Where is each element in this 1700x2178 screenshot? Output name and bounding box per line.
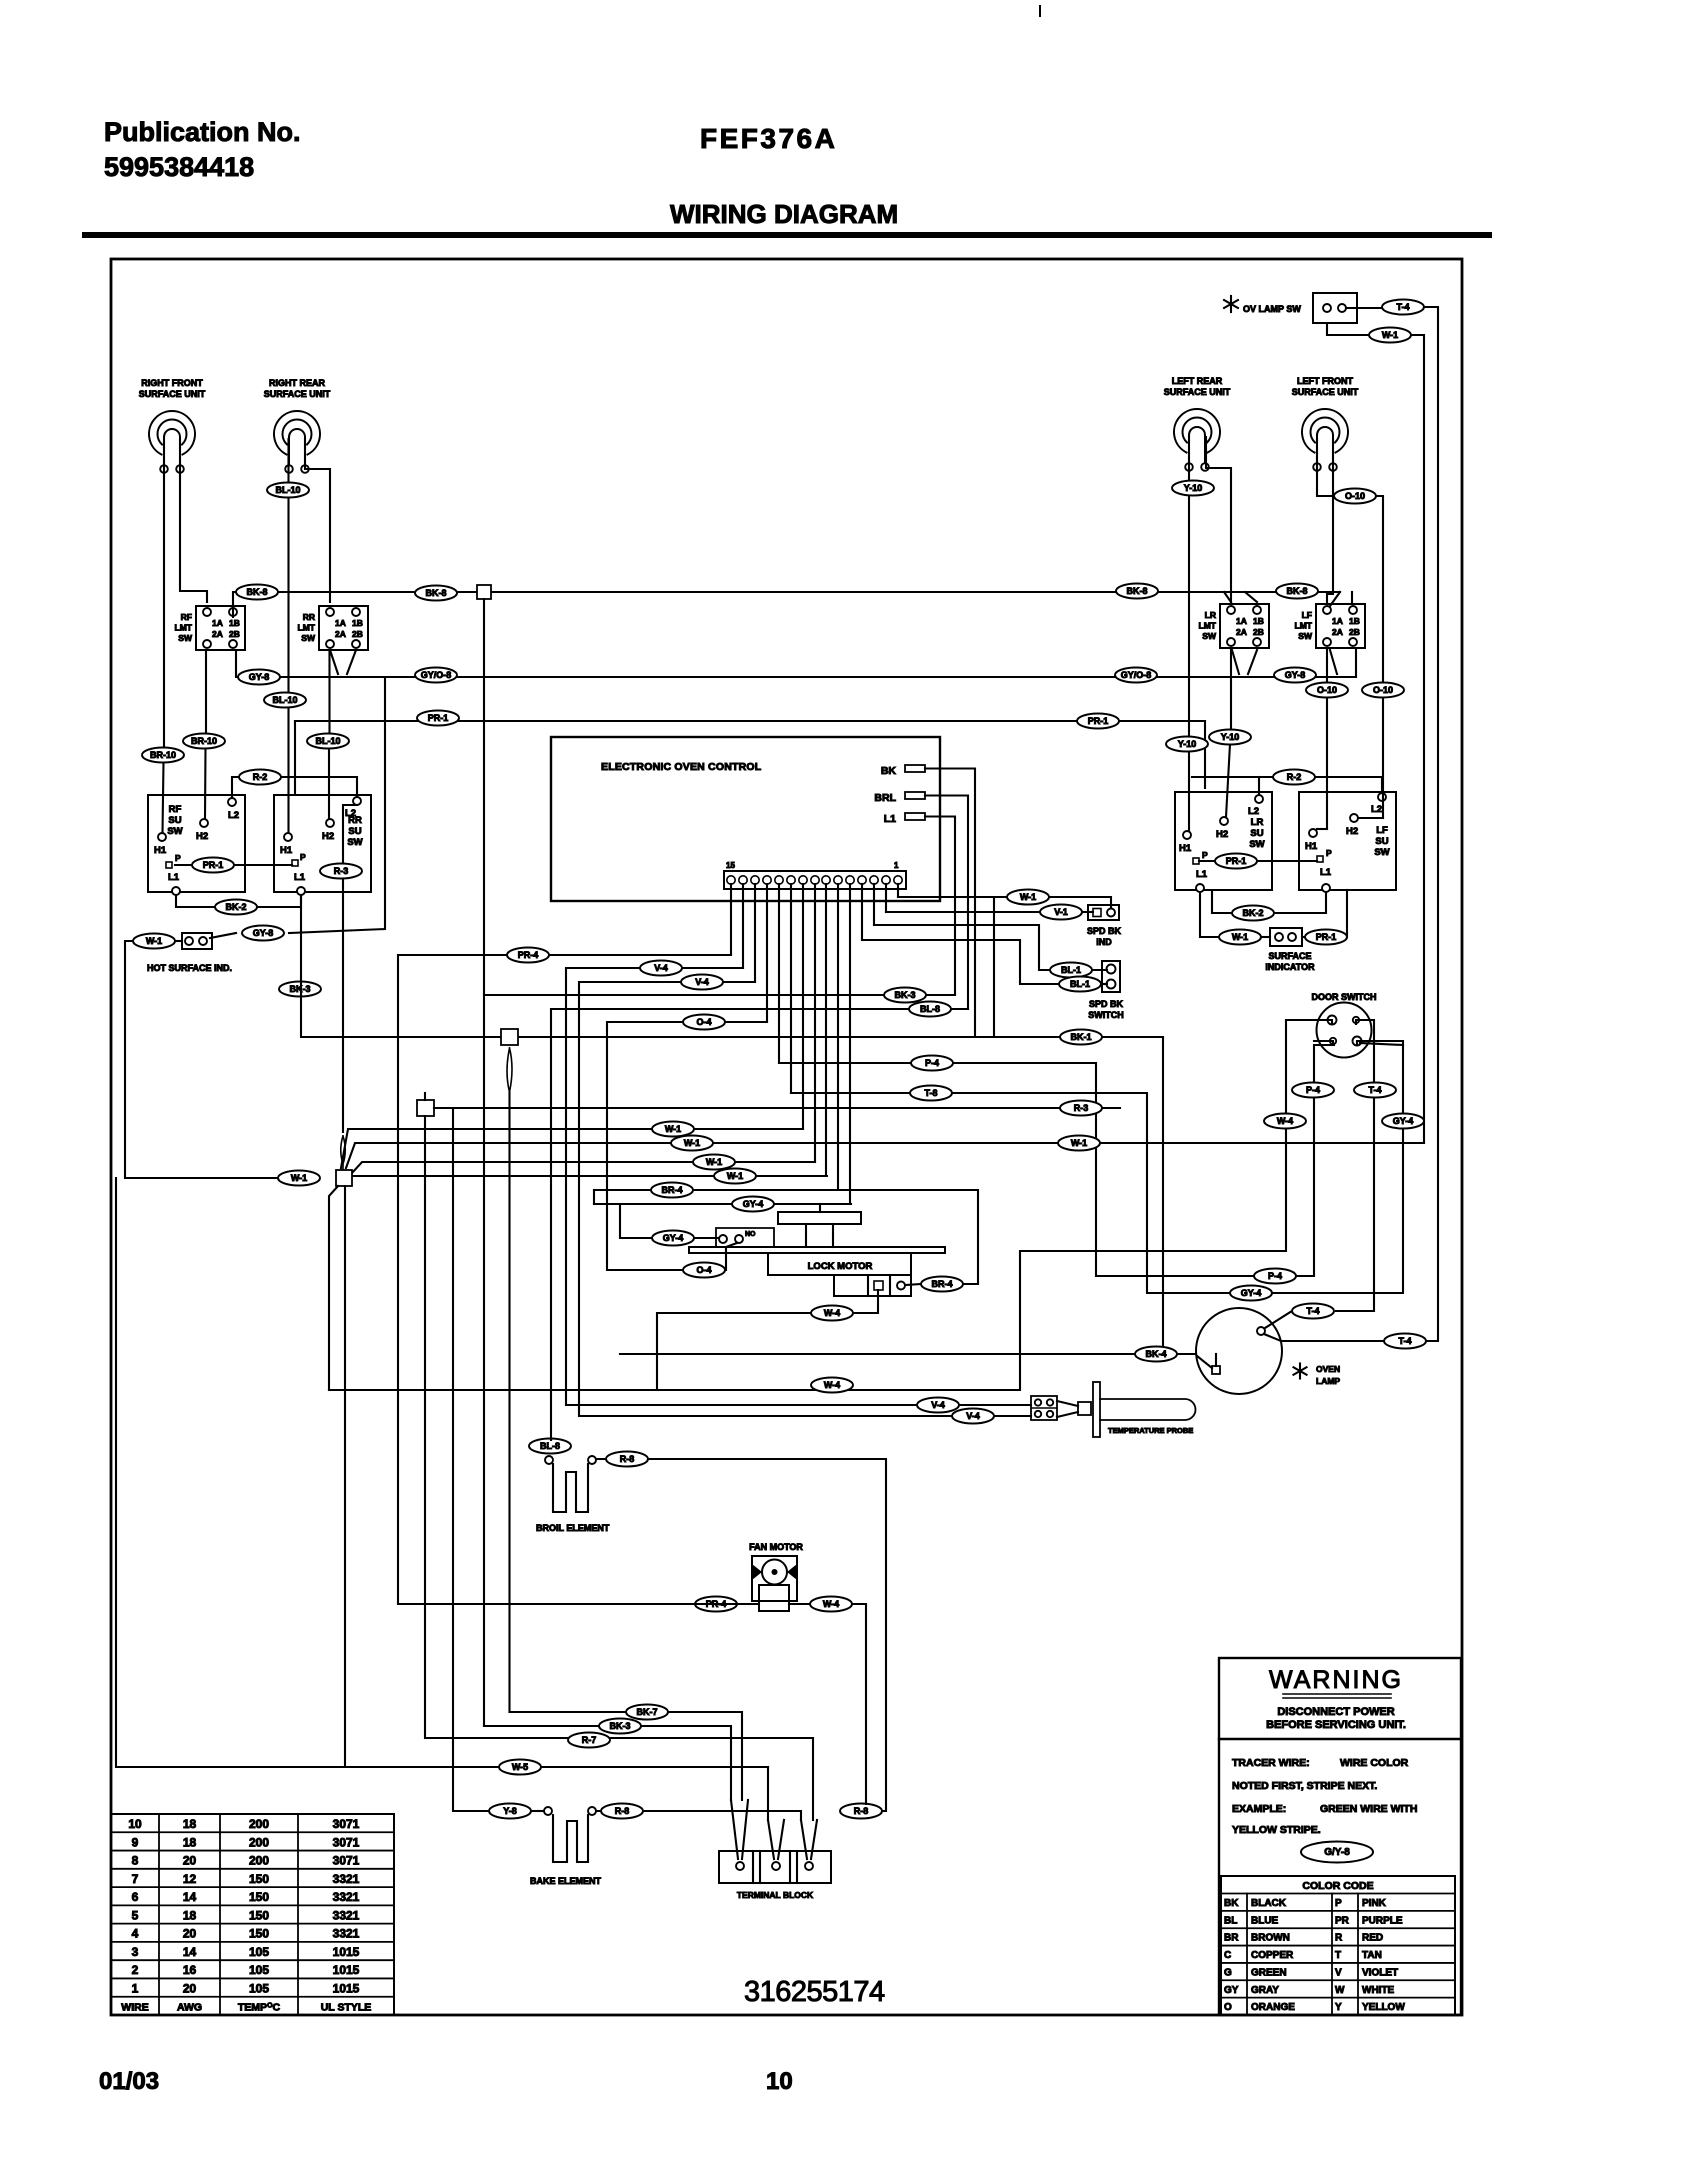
svg-text:YELLOW: YELLOW	[1362, 2002, 1405, 2013]
svg-text:SURFACE: SURFACE	[1268, 951, 1311, 961]
svg-text:1A: 1A	[335, 618, 346, 628]
wire label Y-8	[489, 1804, 531, 1819]
W-1 row 3	[352, 1162, 815, 1173]
svg-text:18: 18	[183, 1835, 197, 1849]
PR-4 row	[398, 955, 731, 1604]
svg-text:P: P	[1335, 1898, 1342, 1909]
W-1 row 1	[341, 1129, 803, 1168]
outer border	[111, 259, 1462, 2015]
SPD BK IND	[1088, 905, 1119, 920]
svg-text:SURFACE UNIT: SURFACE UNIT	[264, 389, 331, 399]
wire label BR-4	[921, 1277, 963, 1292]
svg-text:1B: 1B	[1253, 616, 1264, 626]
svg-text:Publication No.: Publication No.	[104, 117, 301, 147]
auxiliary vertical near EOC right	[993, 897, 995, 1037]
warning box	[1219, 1658, 1461, 2015]
wire label R-2	[1273, 770, 1315, 785]
svg-text:H2: H2	[1346, 826, 1358, 837]
svg-text:BK-4: BK-4	[1145, 1349, 1166, 1359]
svg-text:GRAY: GRAY	[1251, 1985, 1279, 1996]
svg-text:4: 4	[132, 1927, 139, 1941]
svg-text:GY-4: GY-4	[1241, 1288, 1262, 1298]
svg-text:OVEN: OVEN	[1316, 1364, 1340, 1374]
LR SU SW box	[1175, 792, 1272, 890]
BK-3 bottom row	[484, 1726, 731, 1800]
wire label BK-8	[1276, 584, 1318, 599]
svg-text:Y-8: Y-8	[503, 1806, 517, 1816]
title underline rule	[85, 232, 1489, 238]
EOC pin wire 10	[790, 884, 792, 1093]
svg-text:BR-10: BR-10	[150, 750, 176, 760]
wire label P-4	[1254, 1269, 1296, 1284]
svg-text:LMT: LMT	[175, 623, 193, 633]
wire label BR-10	[183, 734, 225, 749]
svg-text:RF: RF	[169, 804, 182, 815]
svg-text:BL: BL	[1224, 1915, 1237, 1926]
svg-text:BK-1: BK-1	[1070, 1032, 1091, 1042]
wire label BK-3	[599, 1719, 641, 1734]
svg-text:PR-1: PR-1	[428, 713, 449, 723]
svg-text:1A: 1A	[1236, 616, 1247, 626]
svg-text:ELECTRONIC OVEN CONTROL: ELECTRONIC OVEN CONTROL	[601, 761, 762, 773]
wire label W-1	[1007, 890, 1049, 905]
RR SU SW box	[274, 795, 371, 892]
wire label BK-8	[236, 585, 278, 600]
svg-text:3071: 3071	[333, 1835, 360, 1849]
svg-text:R: R	[1335, 1933, 1343, 1944]
svg-text:3321: 3321	[333, 1872, 360, 1886]
wire ov lamp sw to W-1	[1327, 323, 1368, 335]
svg-text:20: 20	[183, 1854, 197, 1868]
wire RF coil left down through BR-10 to H1	[163, 439, 165, 747]
svg-text:GREEN: GREEN	[1251, 1967, 1287, 1978]
svg-text:INDICATOR: INDICATOR	[1265, 962, 1315, 972]
svg-text:H1: H1	[1179, 843, 1192, 854]
svg-text:SU: SU	[1375, 836, 1388, 847]
svg-text:H2: H2	[196, 831, 208, 842]
wire label GY/O-8	[415, 668, 457, 683]
wire label V-4	[681, 975, 723, 990]
EOC pin wire 9	[802, 884, 804, 1129]
svg-text:O-10: O-10	[1317, 685, 1337, 695]
R-7 vertical and bottom row	[425, 1116, 813, 1738]
svg-text:105: 105	[249, 1963, 269, 1977]
svg-text:1B: 1B	[352, 618, 363, 628]
svg-text:V-4: V-4	[695, 977, 709, 987]
svg-text:IND: IND	[1096, 937, 1112, 947]
LF coil right lead down to LF LMT 1A	[1327, 439, 1333, 602]
svg-text:PURPLE: PURPLE	[1362, 1915, 1403, 1926]
ov lamp switch box	[1313, 293, 1357, 323]
wire label BK-8	[415, 586, 457, 601]
wire label W-1	[133, 934, 175, 949]
V-4 row b	[579, 982, 1031, 1416]
svg-text:LEFT REAR: LEFT REAR	[1172, 376, 1223, 386]
wire label R-3	[1060, 1101, 1102, 1116]
svg-text:BK-3: BK-3	[609, 1721, 630, 1731]
PR-1 link RF P to RR P	[175, 864, 292, 866]
svg-text:R-2: R-2	[253, 772, 268, 782]
svg-text:BK-2: BK-2	[225, 902, 246, 912]
svg-text:18: 18	[183, 1908, 197, 1922]
terminal block	[719, 1851, 831, 1883]
svg-text:SW: SW	[301, 633, 316, 643]
svg-text:TAN: TAN	[1362, 1950, 1382, 1961]
wire label W-4	[1264, 1114, 1306, 1129]
svg-text:R-3: R-3	[1074, 1103, 1089, 1113]
svg-text:SURFACE UNIT: SURFACE UNIT	[1292, 387, 1359, 397]
wire label BL-10	[264, 693, 306, 708]
svg-text:BL-8: BL-8	[920, 1004, 940, 1014]
junction square on BK-1 row	[501, 1029, 518, 1045]
svg-text:14: 14	[183, 1945, 197, 1959]
svg-text:L1: L1	[294, 872, 306, 883]
svg-text:LF: LF	[1376, 825, 1388, 836]
BRL tab wire down to BL-8 row	[925, 796, 968, 1010]
W-4 from lock motor	[853, 1290, 878, 1313]
svg-text:T-4: T-4	[1396, 302, 1409, 312]
svg-text:GY-4: GY-4	[743, 1199, 764, 1209]
GY-4 door switch leg	[1357, 1041, 1403, 1045]
svg-text:PINK: PINK	[1362, 1898, 1387, 1909]
svg-text:G: G	[1224, 1967, 1232, 1978]
fan motor row	[695, 1603, 737, 1605]
svg-text:200: 200	[249, 1817, 269, 1831]
EOC pin wire 1	[897, 884, 899, 897]
limit switch RR LMT SW	[319, 606, 368, 650]
svg-text:PR-1: PR-1	[1226, 856, 1247, 866]
O-4 row down to lock motor	[607, 1022, 767, 1270]
svg-text:RR: RR	[303, 612, 315, 622]
svg-text:5995384418: 5995384418	[104, 152, 254, 182]
svg-text:PR-1: PR-1	[1088, 716, 1109, 726]
svg-text:1015: 1015	[333, 1981, 360, 1995]
svg-text:LEFT FRONT: LEFT FRONT	[1297, 376, 1353, 386]
svg-text:LR: LR	[1205, 610, 1216, 620]
wire label GY-4	[1230, 1286, 1272, 1301]
BK-2 link RF L1 to RR L1	[176, 895, 215, 907]
wire label R-8	[840, 1804, 882, 1819]
wire label R-8	[601, 1804, 643, 1819]
wire label BL-10	[307, 734, 349, 749]
wire RF LMT 2A down to H2 through BR-10	[205, 650, 207, 734]
wire label BK-2	[215, 900, 257, 915]
V-1 row to SPD BK IND	[886, 911, 1040, 913]
oven lamp internal wire to T-4 right	[1264, 1334, 1384, 1341]
vertical from BK-1 junction down to BK-7 row	[508, 1092, 510, 1712]
LR coil left lead down through Y-10 ovals to LR H1	[1188, 437, 1190, 831]
svg-text:V-1: V-1	[1054, 907, 1068, 917]
svg-text:YELLOW STRIPE.: YELLOW STRIPE.	[1232, 1824, 1321, 1836]
wire label GY/O-8	[1115, 668, 1157, 683]
svg-text:BL-1: BL-1	[1070, 979, 1090, 989]
svg-text:BL-10: BL-10	[315, 736, 340, 746]
svg-text:BAKE ELEMENT: BAKE ELEMENT	[530, 1876, 602, 1886]
svg-text:T: T	[1335, 1950, 1341, 1961]
svg-text:W: W	[1335, 1985, 1345, 1996]
wire label V-4	[917, 1398, 959, 1413]
svg-text:WIRING DIAGRAM: WIRING DIAGRAM	[670, 199, 898, 229]
svg-text:P: P	[1202, 850, 1208, 860]
svg-text:C: C	[1224, 1950, 1231, 1961]
wire label GY-4	[732, 1197, 774, 1212]
svg-text:BRL: BRL	[874, 792, 896, 804]
wire label R-7	[568, 1733, 610, 1748]
svg-text:RF: RF	[181, 612, 192, 622]
svg-text:L1: L1	[884, 813, 896, 825]
HOT SURFACE IND	[182, 933, 212, 949]
PR-1 link LR P to LF P	[1199, 860, 1317, 862]
GY-4 row to lock motor switch	[594, 1203, 851, 1205]
svg-text:LR: LR	[1251, 817, 1264, 828]
svg-text:1015: 1015	[333, 1945, 360, 1959]
svg-text:8: 8	[132, 1854, 139, 1868]
svg-text:GY: GY	[1224, 1985, 1239, 1996]
svg-text:H1: H1	[154, 845, 167, 856]
R-8 from broil element down right side	[596, 1459, 886, 1811]
wire label O-10	[1306, 683, 1348, 698]
wire T-4 to right vertical, down to oven lamp	[1424, 307, 1438, 1341]
wire label W-1	[652, 1122, 694, 1137]
wire label O-4	[683, 1015, 725, 1030]
BK-2 link right: LF L1 down to LR side	[1274, 892, 1326, 913]
wire RR coil right over and down to RR LMT 1A	[305, 439, 330, 602]
color code table	[1221, 1876, 1455, 2015]
svg-text:SURFACE UNIT: SURFACE UNIT	[1164, 387, 1231, 397]
svg-text:16: 16	[183, 1963, 197, 1977]
svg-text:T-4: T-4	[1368, 1085, 1381, 1095]
W-1 row 4	[352, 1175, 827, 1177]
svg-text:2A: 2A	[1236, 627, 1247, 637]
svg-text:BL-8: BL-8	[540, 1441, 560, 1451]
limit switch LF LMT SW	[1316, 604, 1365, 648]
wire to T-4	[1346, 307, 1382, 309]
LR coil right lead to LR LMT 1A, Y-10	[1206, 437, 1231, 602]
EOC pin wire 8	[814, 884, 816, 1162]
svg-text:O-4: O-4	[696, 1017, 711, 1027]
svg-text:GY-4: GY-4	[663, 1233, 684, 1243]
SURFACE INDICATOR	[1270, 928, 1302, 946]
svg-text:10: 10	[128, 1817, 142, 1831]
wire label T-4	[1354, 1083, 1396, 1098]
svg-text:H2: H2	[1216, 829, 1228, 840]
slants RR LMT SW bottoms to GY-8 bus	[330, 650, 338, 674]
wire surface indicator to PR-1	[1302, 936, 1305, 938]
svg-text:V-4: V-4	[654, 963, 668, 973]
svg-text:TERMINAL BLOCK: TERMINAL BLOCK	[737, 1890, 814, 1900]
wire label W-1	[1369, 328, 1411, 343]
LF SU SW box	[1299, 792, 1396, 890]
svg-text:BL-10: BL-10	[275, 485, 300, 495]
svg-text:P: P	[1326, 848, 1332, 858]
svg-text:BK-8: BK-8	[246, 587, 267, 597]
svg-text:SW: SW	[1374, 847, 1389, 858]
SPD BK SWITCH	[1102, 961, 1120, 992]
svg-text:W-1: W-1	[684, 1138, 700, 1148]
wire label BK-1	[1060, 1030, 1102, 1045]
oven lamp BK-4 connection	[1197, 1356, 1212, 1368]
wire label T-4	[1382, 300, 1424, 315]
wire label P-4	[1292, 1083, 1334, 1098]
svg-text:Y-10: Y-10	[1221, 732, 1240, 742]
svg-text:O-4: O-4	[696, 1265, 711, 1275]
svg-text:W-5: W-5	[512, 1762, 528, 1772]
svg-text:SW: SW	[1202, 631, 1217, 641]
W-1 row 2 (long neutral)	[346, 1143, 1424, 1168]
wire label BK-3	[279, 982, 321, 997]
limit switch LR LMT SW	[1220, 604, 1269, 648]
svg-text:BLACK: BLACK	[1251, 1898, 1287, 1909]
wire label BL-8	[529, 1439, 571, 1454]
T-4 from door switch down to oven lamp	[1336, 1020, 1374, 1311]
svg-text:HOT SURFACE IND.: HOT SURFACE IND.	[147, 963, 232, 973]
svg-text:DISCONNECT POWER: DISCONNECT POWER	[1277, 1706, 1394, 1718]
svg-text:H1: H1	[280, 845, 293, 856]
svg-text:SU: SU	[348, 826, 361, 837]
svg-text:2B: 2B	[1349, 627, 1360, 637]
svg-text:V-4: V-4	[931, 1400, 945, 1410]
svg-text:2B: 2B	[352, 629, 363, 639]
wire label W-1	[1058, 1136, 1100, 1151]
svg-text:SW: SW	[347, 837, 362, 848]
EOC pin wire 5	[849, 884, 851, 1204]
svg-text:RIGHT REAR: RIGHT REAR	[269, 378, 326, 388]
svg-text:R-8: R-8	[615, 1806, 630, 1816]
svg-text:Y-10: Y-10	[1178, 739, 1197, 749]
svg-text:SWITCH: SWITCH	[1088, 1010, 1124, 1020]
svg-text:LOCK MOTOR: LOCK MOTOR	[808, 1261, 873, 1272]
svg-text:DOOR SWITCH: DOOR SWITCH	[1312, 992, 1377, 1002]
BK-1 row	[301, 895, 1163, 1037]
svg-text:O-10: O-10	[1345, 491, 1365, 501]
lock motor assembly	[778, 1212, 861, 1224]
wire label Y-10	[1166, 737, 1208, 752]
oven lamp	[1196, 1308, 1282, 1394]
svg-text:2B: 2B	[1253, 627, 1264, 637]
L1 tab wire down to BK-3 row	[925, 817, 955, 996]
svg-text:P-4: P-4	[1306, 1085, 1320, 1095]
BL-8 row down to broil element	[551, 1009, 968, 1440]
svg-text:3321: 3321	[333, 1908, 360, 1922]
svg-text:Y-10: Y-10	[1184, 483, 1203, 493]
svg-text:3: 3	[132, 1945, 139, 1959]
svg-text:Y: Y	[1335, 2002, 1342, 2013]
wire label BK-4	[1135, 1347, 1177, 1362]
svg-text:SW: SW	[167, 826, 182, 837]
svg-text:W-1: W-1	[1071, 1138, 1087, 1148]
svg-text:G/Y-8: G/Y-8	[1324, 1847, 1350, 1858]
wire RF coil right to RF LMT SW 1A	[180, 439, 207, 602]
temperature probe connector	[1031, 1396, 1057, 1420]
wire label GY-4	[1382, 1114, 1424, 1129]
svg-text:BK-7: BK-7	[636, 1707, 657, 1717]
svg-text:P-4: P-4	[1268, 1271, 1282, 1281]
svg-text:150: 150	[249, 1908, 269, 1922]
wire label T-4	[1292, 1304, 1334, 1319]
PR-1 bus	[295, 720, 1205, 722]
svg-text:BR-4: BR-4	[661, 1185, 682, 1195]
svg-text:7: 7	[132, 1872, 139, 1886]
svg-text:SURFACE UNIT: SURFACE UNIT	[139, 389, 206, 399]
svg-text:BROWN: BROWN	[1251, 1933, 1290, 1944]
svg-text:L2: L2	[1248, 806, 1259, 817]
svg-text:AWG: AWG	[177, 2002, 202, 2014]
svg-text:W-4: W-4	[823, 1599, 839, 1609]
wire label W-1	[1219, 930, 1261, 945]
svg-text:LAMP: LAMP	[1316, 1376, 1340, 1386]
R-8 row from bake element	[596, 1811, 801, 1820]
svg-text:WIRE COLOR: WIRE COLOR	[1340, 1757, 1409, 1769]
R-2 link right side	[1192, 776, 1382, 778]
svg-text:R-2: R-2	[1287, 772, 1302, 782]
svg-text:V-4: V-4	[966, 1411, 980, 1421]
svg-text:W-1: W-1	[727, 1171, 743, 1181]
ov lamp sw asterisk	[1224, 296, 1238, 312]
wire W-1 down right side to W-1 bus	[1086, 335, 1424, 1143]
wire label PR-1	[1305, 930, 1347, 945]
svg-text:200: 200	[249, 1854, 269, 1868]
W-5 down leg to terminal block	[767, 1767, 769, 1820]
vertical from BK-8 junction down to BK-3 bottom row	[483, 599, 485, 1726]
svg-text:W-1: W-1	[146, 936, 162, 946]
Y-8 feed vertical	[453, 1108, 489, 1811]
svg-text:W-4: W-4	[824, 1308, 840, 1318]
svg-text:LF: LF	[1302, 610, 1312, 620]
terminal strip	[724, 871, 906, 889]
junction square on BK-8 bus	[477, 585, 491, 599]
BK tab wire down to BK-1 row	[925, 769, 975, 1038]
svg-text:H1: H1	[1305, 841, 1318, 852]
svg-text:6: 6	[132, 1890, 139, 1904]
svg-text:L2: L2	[1371, 804, 1382, 815]
wire label GY-8	[242, 926, 284, 941]
wire label BK-7	[626, 1705, 668, 1720]
svg-text:SW: SW	[1298, 631, 1313, 641]
EOC pin wire 11	[778, 884, 780, 1063]
wire label BR-4	[651, 1183, 693, 1198]
svg-text:GREEN WIRE WITH: GREEN WIRE WITH	[1320, 1803, 1417, 1815]
svg-text:O-10: O-10	[1373, 685, 1393, 695]
wire label T-4	[1384, 1334, 1426, 1349]
wire label Y-10	[1209, 730, 1251, 745]
EOC pin wire 13	[754, 884, 756, 982]
wire label BL-1	[1050, 963, 1092, 978]
BR-4 row to lock motor	[594, 1190, 978, 1284]
svg-text:R-3: R-3	[334, 866, 349, 876]
svg-text:150: 150	[249, 1890, 269, 1904]
svg-text:SU: SU	[168, 815, 181, 826]
svg-text:12: 12	[183, 1872, 197, 1886]
svg-text:T-4: T-4	[1398, 1336, 1411, 1346]
svg-text:1A: 1A	[1332, 616, 1343, 626]
P-4 net	[779, 1063, 1253, 1276]
svg-text:L2: L2	[345, 808, 356, 819]
wire label W-1	[671, 1136, 713, 1151]
R-3 from RR L2 down through loop to square junction	[343, 805, 357, 1132]
svg-text:BK: BK	[881, 765, 897, 777]
svg-text:20: 20	[183, 1927, 197, 1941]
P-4 door switch leg	[1314, 1041, 1333, 1045]
wire label PR-4	[507, 948, 549, 963]
svg-text:BR-4: BR-4	[931, 1279, 952, 1289]
svg-text:316255174: 316255174	[744, 1976, 885, 2008]
wire label PR-1	[1215, 854, 1257, 869]
svg-text:18: 18	[183, 1817, 197, 1831]
svg-text:FEF376A: FEF376A	[700, 123, 837, 154]
EOC pin wire 4	[861, 884, 863, 940]
svg-text:W-1: W-1	[291, 1173, 307, 1183]
svg-text:WIRE: WIRE	[121, 2002, 148, 2014]
